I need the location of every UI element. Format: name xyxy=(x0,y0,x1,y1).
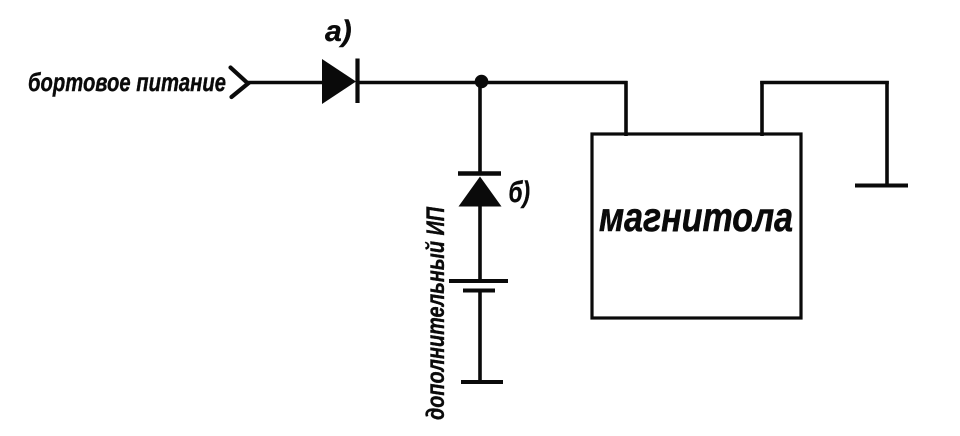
wire: across to ground xyxy=(760,81,889,85)
wire: junction down to diode b xyxy=(478,82,482,173)
svg-text:дополнительный ИП: дополнительный ИП xyxy=(422,206,450,420)
ground bar xyxy=(855,184,908,188)
wire: down to ground xyxy=(885,81,889,185)
svg-text:а): а) xyxy=(325,15,352,48)
svg-text:бортовое питание: бортовое питание xyxy=(28,67,226,97)
wire: diode b to battery xyxy=(478,205,482,281)
battery GB1 long plate xyxy=(449,279,508,283)
junction node dot xyxy=(475,75,489,89)
magnitola box xyxy=(592,134,801,318)
diode D2 cathode bar xyxy=(458,171,501,175)
svg-text:б): б) xyxy=(509,176,531,209)
svg-text:магнитола: магнитола xyxy=(599,194,793,240)
battery GB1 short plate xyxy=(463,289,495,293)
wire: input to diode a xyxy=(248,81,323,85)
diode D2 (б) triangle pointing up xyxy=(459,177,502,207)
diode D1 (а) triangle xyxy=(322,59,356,104)
wire: battery down to terminal xyxy=(478,290,482,382)
wire: magnitola right pin up xyxy=(760,81,764,136)
diode D1 cathode bar xyxy=(355,59,359,104)
bottom terminal bar xyxy=(461,380,503,384)
wire: drop into magnitola left pin xyxy=(624,81,628,136)
wire: diode a to junction and onward xyxy=(357,81,628,85)
input connector chevron xyxy=(231,68,249,98)
